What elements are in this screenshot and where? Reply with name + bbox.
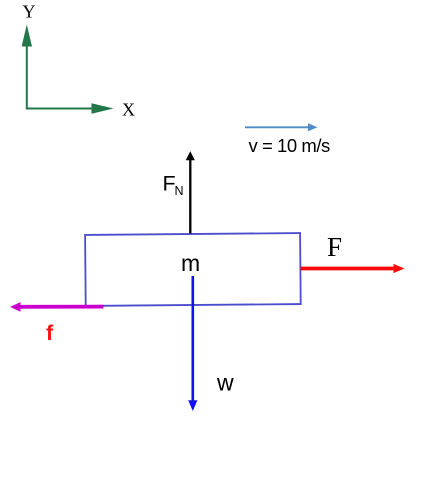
svg-text:f: f — [46, 321, 54, 345]
svg-text:F: F — [327, 232, 342, 262]
svg-text:Y: Y — [23, 1, 36, 21]
svg-text:w: w — [216, 370, 234, 396]
svg-text:X: X — [122, 100, 135, 120]
svg-text:v = 10 m/s: v = 10 m/s — [249, 135, 331, 156]
svg-text:m: m — [181, 250, 200, 276]
svg-text:N: N — [175, 184, 184, 198]
